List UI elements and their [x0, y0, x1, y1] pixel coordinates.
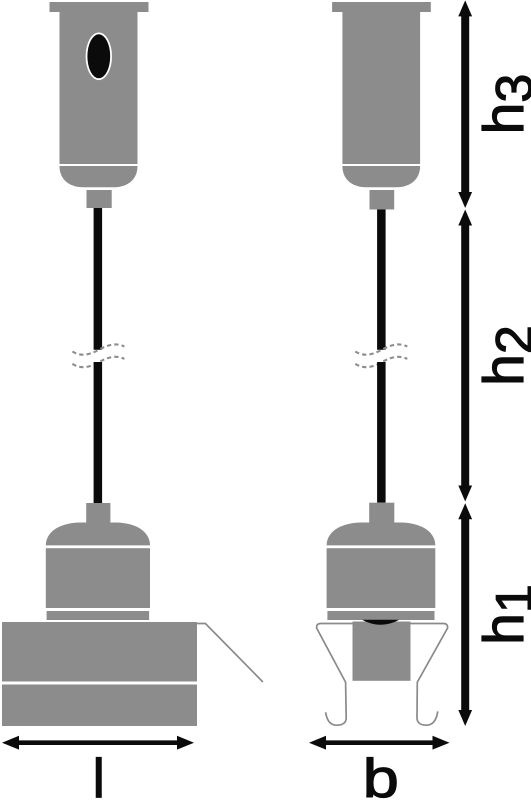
svg-text:l: l — [93, 747, 105, 800]
dimension arrow h1 (vertical, right edge) — [458, 503, 472, 726]
cable break squiggle upper (right) — [355, 344, 407, 354]
dimension arrow h2 (vertical, right edge) — [458, 210, 472, 502]
lamp holder dome (side view, right) — [327, 523, 436, 546]
mounting clip wire (front view, left) — [197, 624, 263, 683]
cable upper segment (right) — [377, 210, 386, 350]
canopy dome bottom (front view, left) — [60, 166, 138, 187]
canopy dome bottom (side view, right) — [342, 166, 420, 187]
canopy cap (front view, left) — [50, 2, 149, 12]
lamp holder dome (front view, left) — [46, 523, 150, 546]
cable lower segment (right) — [377, 362, 386, 503]
spring clip wire (side view, right) — [317, 624, 448, 726]
canopy neck (side view, right) — [370, 190, 395, 210]
canopy body (side view, right) — [342, 12, 420, 164]
canopy cap (side view, right) — [332, 2, 431, 12]
canopy neck (front view, left) — [87, 190, 112, 208]
lamp holder bottom band (side view, right) — [327, 611, 434, 620]
fixture housing lower box (front view, left) — [2, 685, 197, 727]
lamp holder bottom band (front view, left) — [47, 611, 150, 620]
cable break squiggle lower (left) — [72, 357, 124, 367]
cable break squiggle lower (right) — [355, 357, 407, 367]
cable break squiggle upper (left) — [72, 344, 124, 354]
cable entry oval (left) — [87, 34, 110, 78]
svg-text:b: b — [363, 748, 399, 800]
dimension arrow h3 (vertical, right edge) — [458, 0, 472, 208]
fixture housing upper box (front view, left) — [2, 622, 197, 682]
lamp holder neck (front view, left) — [86, 503, 110, 524]
dimension arrow b (horizontal, bottom right) — [309, 736, 450, 750]
canopy body (front view, left) — [60, 12, 138, 164]
lamp holder body (side view, right) — [327, 548, 436, 608]
cable entry oval white ring (left) — [86, 33, 112, 81]
cable upper segment (left) — [94, 208, 103, 350]
lamp lens dark arc (side view, right) — [362, 620, 399, 625]
lamp holder body (front view, left) — [46, 548, 150, 608]
lamp holder neck (side view, right) — [369, 503, 394, 524]
lamp bulb body (side view, right) — [353, 622, 411, 681]
dimension arrow l (horizontal, bottom left) — [2, 736, 194, 750]
cable lower segment (left) — [94, 362, 103, 503]
